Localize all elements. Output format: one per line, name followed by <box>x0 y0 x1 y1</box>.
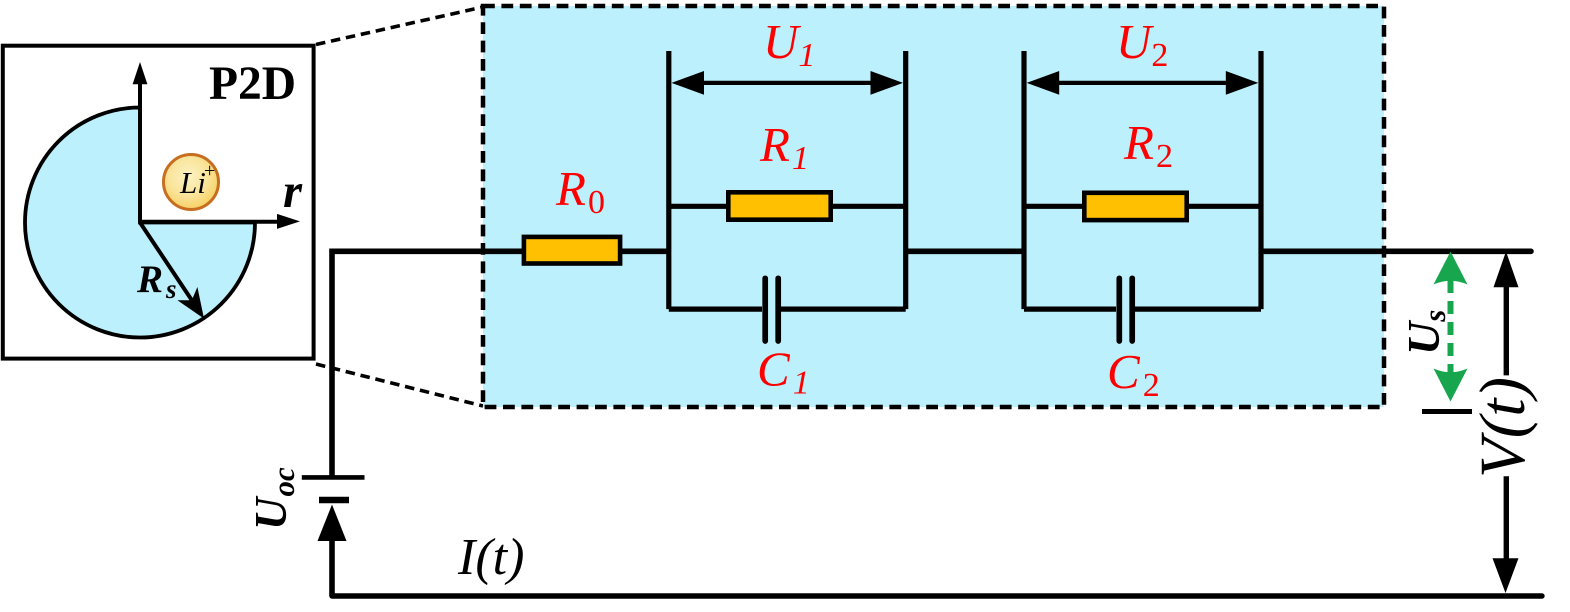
Us green arrow dashed stem <box>1448 280 1454 373</box>
RC pair 1 left vertical wire <box>666 51 671 309</box>
ECM dashed cyan box <box>483 6 1384 407</box>
particle pie (3/4 disc) <box>25 108 255 338</box>
C2 branch wire left <box>1024 307 1116 312</box>
bottom return wire <box>332 593 1542 598</box>
C1 branch wire left <box>669 307 762 312</box>
Us green arrow bottom head <box>1434 369 1468 402</box>
V(t) arrow stem lower <box>1504 476 1509 560</box>
R1 branch wire <box>669 204 906 209</box>
svg-text:r: r <box>283 163 303 218</box>
main top wire left segment <box>332 249 522 255</box>
resistor R1 <box>728 192 830 219</box>
capacitor C1 plates <box>765 278 778 341</box>
dashed zoom connector bottom <box>316 364 483 406</box>
svg-text:I(t): I(t) <box>457 529 524 586</box>
capacitor C2 plates <box>1119 278 1132 341</box>
Rs radius arrow <box>140 223 204 319</box>
resistor R2 <box>1084 193 1186 220</box>
V(t) arrow stem upper <box>1504 285 1509 375</box>
RC pair 2 right vertical wire <box>1258 51 1263 309</box>
main top wire right segment <box>1263 249 1531 255</box>
resistor R0 <box>524 237 620 264</box>
C1 branch wire right <box>781 307 906 312</box>
R2 branch wire <box>1024 204 1261 209</box>
P2D inset box <box>3 46 314 359</box>
svg-text:V(t): V(t) <box>1467 377 1539 478</box>
V(t) arrow top head <box>1494 252 1519 288</box>
axis arrow up (pie vertical edge) <box>133 62 148 223</box>
RC pair 1 right vertical wire <box>903 51 908 309</box>
main top wire middle segment 2 <box>904 249 1026 255</box>
main top wire middle segment 1 <box>620 249 671 255</box>
Us reference tick <box>1422 409 1472 414</box>
current direction arrowhead <box>318 505 347 542</box>
U1 measurement arrow <box>672 71 904 95</box>
svg-text:Li: Li <box>179 165 206 200</box>
svg-text:+: + <box>204 160 215 182</box>
V(t) arrow bottom head <box>1493 558 1519 593</box>
dashed zoom connector top <box>316 7 483 45</box>
battery long plate <box>302 475 365 480</box>
C2 branch wire right <box>1135 307 1261 312</box>
svg-text:P2D: P2D <box>209 58 296 110</box>
battery short plate <box>319 497 349 503</box>
Us green arrow top head <box>1434 252 1468 285</box>
battery branch vertical wire lower <box>329 538 335 596</box>
RC pair 2 left vertical wire <box>1021 51 1026 309</box>
axis arrow r (pie horizontal edge) <box>140 214 300 229</box>
U2 measurement arrow <box>1027 71 1259 95</box>
battery branch vertical wire upper <box>329 249 335 478</box>
Li+ ion circle <box>164 155 219 210</box>
